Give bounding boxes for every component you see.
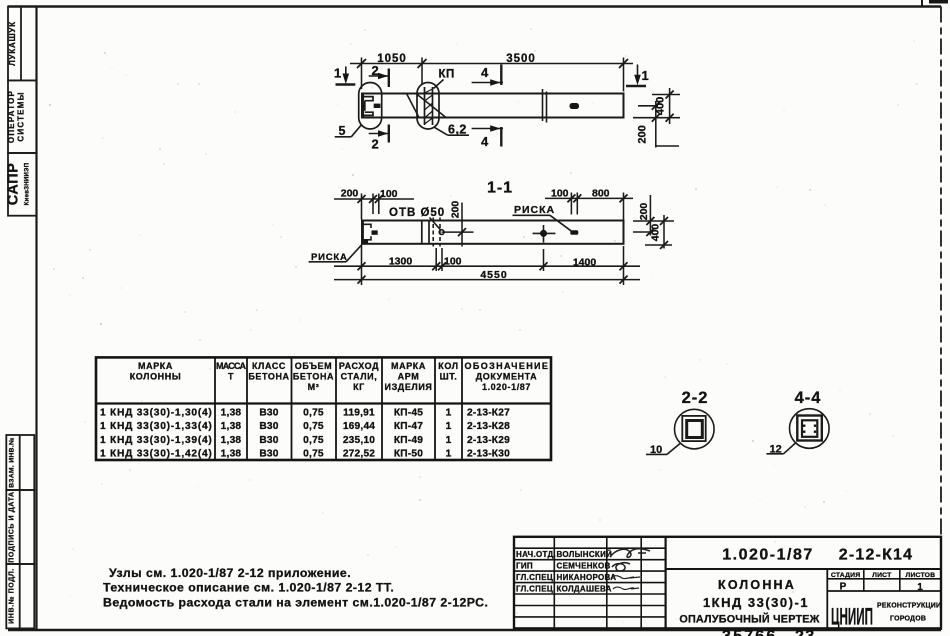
svg-text:РАСХОД: РАСХОД (339, 361, 379, 371)
signature squiggle 3 (611, 576, 640, 579)
lifting point cross (533, 225, 556, 243)
bottom dim row 1 (334, 246, 640, 285)
svg-text:ГОРОДОВ: ГОРОДОВ (890, 616, 926, 623)
table outer border (96, 357, 551, 460)
svg-text:169,44: 169,44 (343, 421, 375, 432)
frame right line (broken scan) (940, 7, 942, 631)
ext bottom edge (633, 117, 680, 119)
svg-text:2: 2 (372, 137, 379, 152)
break line in column (plan) (542, 89, 544, 121)
svg-text:МАССА: МАССА (216, 361, 247, 371)
svg-text:0,75: 0,75 (303, 421, 324, 432)
extension line right (623, 58, 625, 92)
end riska mark bottom (filled) (362, 240, 369, 244)
stamp box PODPIS I DATA (6, 490, 34, 564)
svg-text:100: 100 (444, 256, 462, 268)
column body outline (plan) (362, 94, 624, 118)
ext right end (623, 193, 625, 220)
section 4-4 circle (790, 409, 830, 449)
svg-text:ВОЛЫНСКИЙ: ВОЛЫНСКИЙ (557, 550, 613, 559)
svg-text:200: 200 (341, 188, 359, 200)
dim line (545, 197, 633, 199)
ext x442 (441, 248, 443, 271)
KP plate hatch (425, 89, 433, 124)
dim tick right (619, 59, 628, 68)
plate mark pill (plan) (570, 103, 580, 109)
ext below (655, 145, 679, 147)
svg-text:СИСТЕМЫ: СИСТЕМЫ (17, 91, 26, 141)
extension line middle (421, 58, 423, 85)
tick 400 bottom (666, 114, 674, 122)
svg-text:1,38: 1,38 (221, 449, 242, 460)
svg-text:2-13-К28: 2-13-К28 (467, 421, 510, 432)
svg-text:2: 2 (372, 63, 379, 78)
svg-text:200: 200 (638, 203, 650, 221)
end notch inner vertical (364, 101, 366, 111)
hole dashed line right (439, 218, 441, 247)
section 4-4 rebar bumps (803, 425, 805, 427)
svg-text:1КНД 33(30)-1: 1КНД 33(30)-1 (703, 595, 809, 610)
right side dims 200/400 (section) (633, 195, 674, 249)
svg-text:РИСКА: РИСКА (514, 204, 555, 216)
column end face line (362, 94, 364, 118)
ext left (361, 194, 363, 220)
product/stadia divider (826, 569, 828, 628)
right side dims of plan (633, 88, 680, 148)
stamp box SAPR (8, 153, 37, 216)
svg-text:ГЛ.СПЕЦ.: ГЛ.СПЕЦ. (516, 584, 556, 593)
svg-text:3500: 3500 (506, 53, 536, 65)
ext x436 (435, 248, 437, 271)
svg-text:МАРКА: МАРКА (391, 361, 426, 371)
svg-text:4: 4 (481, 65, 489, 80)
svg-text:100: 100 (380, 188, 398, 200)
left stamp strip: top group (8, 7, 37, 216)
svg-text:400: 400 (650, 224, 662, 242)
svg-text:ЛУКАШУК: ЛУКАШУК (8, 21, 17, 66)
svg-text:НИКАНОРОВА: НИКАНОРОВА (557, 573, 617, 582)
svg-text:КП-49: КП-49 (394, 435, 423, 446)
dim tick middle (418, 59, 427, 68)
hole leader (430, 218, 441, 230)
riska left leader (309, 243, 364, 262)
stadia labels (831, 572, 935, 579)
svg-text:КГ: КГ (353, 382, 365, 392)
svg-text:ЛИСТОВ: ЛИСТОВ (906, 572, 936, 579)
KP leader (434, 80, 444, 89)
svg-text:Узлы см. 1.020-1/87 2-12 прило: Узлы см. 1.020-1/87 2-12 приложение. (109, 566, 351, 580)
svg-text:ШТ.: ШТ. (440, 372, 458, 382)
stamp box LUKASHUK (8, 7, 37, 81)
stadia values underline (827, 590, 941, 592)
header cell bottom line (666, 568, 941, 570)
title block outer border (514, 537, 941, 629)
svg-text:КП-45: КП-45 (394, 408, 423, 419)
svg-text:ГИП: ГИП (516, 561, 533, 570)
svg-text:100: 100 (551, 188, 569, 200)
dim line 200 vertical (655, 101, 657, 148)
tick 400 top (666, 91, 674, 99)
svg-text:2-2: 2-2 (682, 389, 709, 407)
label 5 leader (335, 125, 361, 137)
svg-text:1,38: 1,38 (221, 408, 242, 419)
section 2-2 circle (675, 409, 715, 449)
svg-text:200: 200 (450, 201, 462, 219)
dim line 400 (663, 215, 665, 249)
svg-text:1.020-1/87: 1.020-1/87 (482, 382, 531, 392)
ext x543 (543, 249, 545, 271)
ext 100 left (570, 193, 572, 215)
end plate mark (section, filled) (372, 230, 378, 234)
section mark 4 (bottom) (472, 127, 503, 147)
svg-text:КОЛ: КОЛ (438, 361, 458, 371)
svg-text:МАРКА: МАРКА (138, 361, 173, 371)
svg-text:0,75: 0,75 (303, 435, 324, 446)
ext top edge (633, 220, 674, 222)
stadia col divider 1 (863, 569, 865, 591)
svg-text:1 КНД 33(30)-1,39(4): 1 КНД 33(30)-1,39(4) (100, 435, 212, 446)
hole circle marker (439, 230, 444, 235)
dim tick left (357, 59, 366, 68)
detail balloon 5 (stadium) (359, 83, 382, 130)
svg-text:2-12-К14: 2-12-К14 (839, 547, 914, 564)
svg-text:Р: Р (840, 582, 847, 593)
svg-text:Техническое описание см. 1.020: Техническое описание см. 1.020-1/87 2-12… (103, 581, 394, 595)
end notch bottom (section) (363, 236, 371, 240)
stamp box VZAM INV (6, 435, 34, 490)
svg-text:1: 1 (334, 66, 341, 81)
svg-text:КП-47: КП-47 (394, 421, 423, 432)
svg-text:1-1: 1-1 (487, 180, 513, 197)
svg-text:ЦНИИП: ЦНИИП (831, 604, 873, 631)
svg-text:КиевЗНИИЭП: КиевЗНИИЭП (25, 163, 31, 206)
svg-text:ОПАЛУБОЧНЫЙ ЧЕРТЕЖ: ОПАЛУБОЧНЫЙ ЧЕРТЕЖ (679, 613, 819, 626)
svg-text:РИСКА: РИСКА (311, 252, 348, 263)
svg-text:ГЛ.СПЕЦ.: ГЛ.СПЕЦ. (516, 573, 556, 582)
svg-text:200: 200 (637, 125, 649, 143)
frame top line (8, 5, 941, 7)
tick on center line (458, 228, 466, 236)
top dimension line 1050/3500 (350, 58, 633, 92)
top right corner dark mark (929, 0, 948, 4)
svg-text:ИНВ.№ ПОДЛ.: ИНВ.№ ПОДЛ. (8, 568, 16, 624)
svg-text:В30: В30 (259, 449, 278, 460)
svg-text:10: 10 (650, 444, 662, 456)
svg-text:СТАДИЯ: СТАДИЯ (831, 572, 860, 579)
title block main divider (664, 537, 666, 629)
svg-text:ЛИСТ: ЛИСТ (872, 572, 892, 579)
svg-text:ИЗДЕЛИЯ: ИЗДЕЛИЯ (385, 382, 433, 392)
section mark 1 (left) (336, 67, 356, 85)
bevel diagonal left (407, 94, 420, 118)
svg-text:Т: Т (228, 372, 234, 382)
role labels (516, 550, 616, 593)
svg-text:М³: М³ (308, 382, 320, 392)
top right corner stamp edge (921, 0, 923, 7)
bottom dim row 2 (total) (334, 279, 640, 281)
svg-text:В30: В30 (259, 408, 278, 419)
column body outline (section) (362, 221, 624, 244)
dim line 400 vertical (669, 88, 671, 124)
svg-text:БЕТОНА: БЕТОНА (293, 372, 334, 382)
signature squiggle 1 (610, 549, 650, 558)
title block column line 3 (640, 537, 642, 629)
svg-text:1: 1 (446, 421, 452, 432)
label 6.2 leader (434, 127, 470, 135)
table data rows (100, 408, 212, 460)
tick 200 bottom (652, 114, 660, 122)
svg-text:В30: В30 (259, 421, 278, 432)
svg-text:4550: 4550 (480, 269, 507, 281)
ext left end long (361, 246, 363, 285)
svg-text:Ведомость расхода стали на эле: Ведомость расхода стали на элемент см.1.… (103, 596, 488, 610)
svg-text:23: 23 (795, 628, 816, 636)
end embedded mark (filled) (374, 104, 381, 108)
svg-text:12: 12 (770, 443, 782, 455)
svg-text:0,75: 0,75 (303, 449, 324, 460)
stamp box INV N PODL (6, 564, 34, 628)
svg-text:КЛАСС: КЛАСС (252, 361, 286, 371)
svg-text:РЕКОНСТРУКЦИИ: РЕКОНСТРУКЦИИ (877, 603, 941, 610)
svg-text:2-13-К30: 2-13-К30 (467, 449, 510, 460)
svg-text:1050: 1050 (377, 53, 407, 65)
svg-text:В30: В30 (259, 435, 278, 446)
title block column line 1 (553, 537, 555, 629)
svg-text:4-4: 4-4 (795, 389, 822, 407)
svg-text:5: 5 (339, 124, 346, 138)
KP plate left edge (424, 87, 426, 125)
svg-text:1: 1 (446, 449, 452, 460)
section 2-2 inner square (thick) (687, 421, 703, 438)
end notch bottom bar (363, 112, 373, 115)
svg-text:1: 1 (446, 435, 452, 446)
svg-text:0,75: 0,75 (303, 408, 324, 419)
svg-text:ВЗАМ. ИНВ.№: ВЗАМ. ИНВ.№ (9, 437, 16, 488)
svg-text:БЕТОНА: БЕТОНА (248, 372, 289, 382)
table header bottom line (96, 402, 551, 404)
ext center (638, 105, 658, 107)
dim line row1 (334, 265, 640, 267)
svg-text:СТАЛИ,: СТАЛИ, (341, 372, 378, 382)
table header texts (130, 361, 549, 392)
dim line 200 (649, 195, 651, 236)
svg-text:2-13-К27: 2-13-К27 (467, 408, 510, 419)
ext center (633, 231, 653, 233)
signature squiggle 4 (613, 587, 639, 589)
svg-text:КОЛДАШЕВА: КОЛДАШЕВА (557, 584, 612, 593)
stamp box OPERATOR SISTEMY (8, 80, 37, 153)
end face line (section) (362, 221, 364, 244)
svg-text:ОПЕРАТОР: ОПЕРАТОР (7, 90, 16, 143)
vertical ext for 200 (461, 203, 463, 247)
left stamp strip: bottom group (6, 435, 34, 628)
section 2-2 leader (667, 444, 680, 455)
frame left line (35, 7, 37, 631)
svg-text:САПР: САПР (6, 163, 22, 205)
dim line (334, 198, 414, 200)
bevel diagonal right (416, 94, 446, 118)
svg-text:1 КНД 33(30)-1,30(4): 1 КНД 33(30)-1,30(4) (100, 408, 212, 419)
groove vertical lines (421, 221, 423, 244)
ext 100 right (576, 193, 578, 215)
riska mark right (filled) (570, 230, 578, 235)
svg-text:119,91: 119,91 (343, 408, 375, 419)
stamp box divider (20, 7, 22, 81)
riska right leader (513, 215, 572, 231)
section 4-4 outer square (797, 416, 822, 441)
svg-text:ПОДПИСЬ И ДАТА: ПОДПИСЬ И ДАТА (9, 491, 16, 562)
svg-text:1 КНД 33(30)-1,33(4): 1 КНД 33(30)-1,33(4) (100, 421, 212, 432)
section mark 2 (bottom) (369, 125, 389, 143)
ext bottom (645, 244, 672, 246)
svg-text:1 КНД 33(30)-1,42(4): 1 КНД 33(30)-1,42(4) (100, 449, 212, 460)
svg-text:235,10: 235,10 (343, 435, 375, 446)
svg-text:ОТВ Ø50: ОТВ Ø50 (389, 207, 445, 219)
lifting point dot (540, 230, 547, 237)
svg-text:СЕМЧЕНКОВ: СЕМЧЕНКОВ (557, 561, 611, 570)
tick 200 top (652, 102, 660, 110)
section 4-4 inner square (802, 420, 817, 437)
svg-text:1: 1 (446, 408, 452, 419)
svg-text:1400: 1400 (573, 257, 597, 269)
table column lines (214, 357, 216, 460)
svg-text:2-13-К29: 2-13-К29 (467, 435, 510, 446)
svg-text:1,38: 1,38 (221, 421, 242, 432)
svg-text:1: 1 (642, 68, 649, 83)
svg-text:1.020-1/87: 1.020-1/87 (722, 547, 814, 564)
section mark 2 (top) (369, 69, 389, 88)
svg-text:1,38: 1,38 (221, 435, 242, 446)
stamp strip middle divider (19, 435, 21, 628)
title block row lines (514, 547, 666, 549)
stadia col divider 2 (899, 569, 901, 591)
signature squiggle 2 (612, 563, 630, 571)
svg-text:6,2: 6,2 (448, 123, 467, 137)
top-left dims 200/100 (334, 194, 414, 220)
svg-text:ОБОЗНАЧЕНИЕ: ОБОЗНАЧЕНИЕ (465, 361, 549, 371)
svg-text:КОЛОННЫ: КОЛОННЫ (130, 372, 182, 382)
ext right (378, 194, 380, 215)
end notch top bar (363, 97, 373, 101)
section mark 4 (top) (472, 65, 503, 86)
frame bottom line (8, 629, 941, 632)
svg-text:АРМ: АРМ (398, 372, 420, 382)
svg-text:4: 4 (481, 134, 489, 149)
section mark 1 (right) (626, 65, 646, 87)
svg-text:1: 1 (917, 582, 923, 593)
svg-text:35766: 35766 (722, 628, 778, 636)
svg-text:ОБЪЕМ: ОБЪЕМ (295, 361, 332, 371)
svg-text:272,52: 272,52 (343, 449, 375, 460)
detail balloon 6.2 (stadium) (417, 83, 439, 130)
title block column line 2 (606, 537, 608, 629)
svg-text:1300: 1300 (389, 256, 413, 268)
hole center line (442, 231, 474, 233)
section 2-2 outer square (682, 416, 705, 441)
hole dashed line left (432, 218, 434, 247)
KP plate right edge (432, 87, 434, 125)
svg-text:400: 400 (655, 97, 667, 115)
ext top edge (652, 94, 680, 96)
ext right end long (623, 246, 625, 285)
section 4-4 leader (784, 443, 796, 454)
svg-text:ДОКУМЕНТА: ДОКУМЕНТА (476, 372, 538, 382)
stadia label underline (827, 578, 941, 580)
svg-text:КП: КП (439, 69, 455, 81)
extension line left (361, 58, 363, 90)
end notch top (section) (363, 224, 371, 228)
svg-text:КОЛОННА: КОЛОННА (718, 578, 796, 592)
top-right dims 100/800 (545, 193, 633, 220)
svg-text:КП-50: КП-50 (394, 449, 423, 460)
ext mid (372, 194, 374, 215)
svg-text:800: 800 (592, 188, 610, 200)
